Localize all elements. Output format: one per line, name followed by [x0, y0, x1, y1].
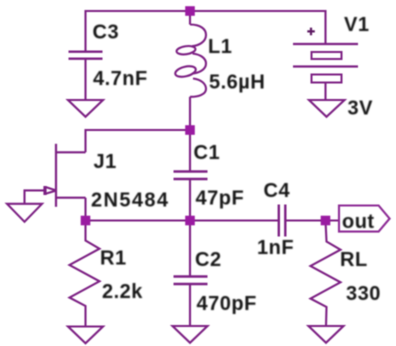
- svg-text:47pF: 47pF: [196, 188, 245, 210]
- svg-text:5.6µH: 5.6µH: [209, 72, 265, 94]
- svg-text:C2: C2: [195, 249, 222, 271]
- svg-text:out: out: [342, 211, 375, 233]
- svg-text:2N5484: 2N5484: [91, 190, 169, 212]
- svg-text:330: 330: [346, 283, 381, 305]
- svg-text:C4: C4: [264, 180, 291, 202]
- svg-text:470pF: 470pF: [197, 293, 257, 315]
- svg-text:4.7nF: 4.7nF: [93, 68, 148, 90]
- svg-text:3V: 3V: [348, 98, 374, 120]
- svg-text:C1: C1: [194, 142, 221, 164]
- svg-text:V1: V1: [344, 14, 369, 36]
- svg-text:L1: L1: [208, 36, 232, 58]
- svg-text:C3: C3: [93, 22, 120, 44]
- svg-text:J1: J1: [94, 151, 117, 173]
- svg-text:RL: RL: [340, 249, 368, 271]
- svg-text:R1: R1: [100, 248, 127, 270]
- svg-text:1nF: 1nF: [257, 237, 294, 259]
- svg-text:2.2k: 2.2k: [102, 281, 143, 303]
